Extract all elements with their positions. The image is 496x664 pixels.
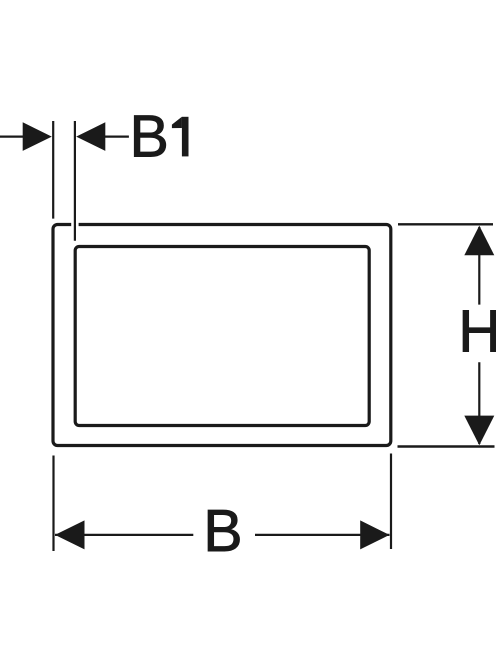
svg-text:B: B — [130, 104, 169, 170]
svg-text:B: B — [203, 498, 242, 564]
svg-text:H: H — [458, 298, 496, 364]
